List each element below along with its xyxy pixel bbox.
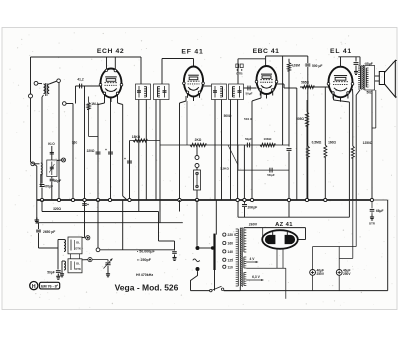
svg-text:320Ω: 320Ω — [53, 207, 61, 211]
svg-text:DTN: DTN — [75, 267, 80, 271]
wire v122.7 below bus — [122, 200, 124, 250]
output transformer T2 core — [361, 65, 363, 90]
svg-text:110: 110 — [228, 265, 233, 269]
wire HV to AZ41 left plate — [262, 228, 264, 240]
wire v-rail x296.8 to bus — [296, 88, 298, 200]
wire v158.5 drop — [158, 212, 160, 242]
svg-text:DTN: DTN — [75, 247, 80, 251]
wire v352.8 below bus — [352, 201, 354, 259]
selector tap 160 — [223, 241, 226, 244]
junction bus x59 — [57, 198, 60, 201]
junction bus x42 — [40, 198, 43, 201]
wire h241 — [159, 240, 175, 242]
tube AZ41 — [262, 230, 298, 249]
svg-text:41,2: 41,2 — [77, 78, 83, 82]
wire speaker secondary return v375.8 — [375, 90, 377, 128]
trimmer KLO feed — [51, 146, 53, 160]
wire h222.7 return — [36, 218, 38, 223]
svg-text:1,5KΩ: 1,5KΩ — [220, 167, 229, 171]
junction bus x98 — [96, 198, 99, 201]
wire v-rail x187 pin drop — [193, 98, 195, 102]
wire bus x197 down to plug — [196, 200, 198, 246]
capacitor 41,2 series — [79, 84, 81, 89]
wire pot bottom to bus — [196, 190, 198, 200]
svg-text:OL: OL — [76, 241, 80, 245]
svg-text:2650 pF: 2650 pF — [43, 230, 55, 234]
wire B+ x285.8 down — [285, 268, 287, 299]
node oscillator terminal 2 — [88, 258, 92, 262]
wire EF41 anode to MF2 — [203, 85, 212, 87]
ground bus — [37, 199, 372, 201]
badge logo disc — [30, 282, 38, 290]
wire bottom rail h290.6 — [224, 290, 388, 292]
wire anode supply h56 to EL41 area — [266, 55, 308, 57]
MF2 box A capacitor — [214, 86, 216, 98]
wire v265.6 tube top — [265, 56, 267, 59]
svg-text:250V: 250V — [317, 272, 325, 276]
junction bus x73 — [71, 198, 74, 201]
wire left antenna rail vertical — [30, 57, 32, 162]
svg-text:250V: 250V — [343, 272, 351, 276]
wire diode return h88 — [244, 87, 257, 89]
wire selector bar bottom down — [214, 270, 216, 291]
junction bus x325.3 — [324, 198, 327, 201]
svg-text:1250Ω: 1250Ω — [363, 141, 373, 145]
wire top-left horizontal from antenna rail to MF1 — [31, 56, 142, 58]
wire v-rail x110 tube to bus — [110, 98, 112, 200]
OL1 coil — [64, 240, 66, 252]
volume potentiometer node top — [195, 156, 199, 160]
wire MF2 box B bottom leads — [230, 100, 232, 201]
wire x36.8 down to ground — [31, 162, 37, 166]
power transformer T3 primary winding — [237, 229, 239, 286]
wire pot feed — [196, 145, 198, 156]
junction dot on selector bar — [211, 246, 214, 249]
svg-text:3βc: 3βc — [72, 141, 78, 145]
wire rect h217.2 — [238, 216, 349, 218]
wire v-rail x244.4 — [243, 145, 245, 200]
MF1 box A winding — [146, 87, 148, 98]
output transformer T2 primary — [360, 66, 362, 89]
wire OL2 left lead to ground — [62, 260, 64, 262]
wire v160 link — [159, 200, 161, 212]
wire v216.3 below bus — [215, 200, 217, 235]
junction bus x244.4 — [243, 198, 246, 201]
capacitor shunt below bus x84.5 — [84, 201, 86, 203]
wire v-rail x179.5 to bus — [179, 103, 181, 200]
wire v-rail x307.8 with 500pF — [307, 56, 309, 63]
capacitor 500pF — [305, 63, 310, 65]
capacitor 4,7KpF on x289 — [287, 148, 292, 150]
wire h128 secondary return — [372, 127, 376, 129]
svg-text:DTR: DTR — [369, 222, 375, 226]
capacitor on x174.5 — [172, 251, 177, 253]
svg-text:50Ω: 50Ω — [366, 91, 373, 95]
resistor 565 ohm — [302, 85, 314, 88]
oscillator padding coil L2 — [41, 163, 43, 175]
wire terminal2 to gang h259.6 — [92, 259, 108, 261]
svg-text:EBC 41: EBC 41 — [253, 48, 280, 55]
svg-text:ECH 42: ECH 42 — [97, 48, 124, 55]
node coil secondary top — [57, 79, 61, 83]
svg-text:DTB: DTB — [236, 72, 243, 76]
trimmer box — [47, 160, 57, 177]
svg-text:504 A: 504 A — [244, 117, 253, 121]
MF2 box B capacitor — [239, 86, 241, 98]
coil L1 primary — [44, 84, 46, 94]
wire MF1 box A bottom leads — [138, 100, 140, 212]
MF2 box B winding — [232, 87, 234, 98]
capacitor electrolytic 46uF B — [338, 247, 340, 270]
wire h250 gang line — [100, 249, 175, 251]
svg-text:68μF: 68μF — [376, 209, 383, 213]
junction bus x252 — [250, 198, 253, 201]
wire tube right pin to x122.7 — [117, 98, 119, 104]
junction bus x197 — [195, 198, 198, 201]
svg-text:EF 41: EF 41 — [181, 48, 203, 55]
ground x174.5 — [174, 255, 176, 257]
svg-text:AZ 41: AZ 41 — [275, 222, 293, 228]
svg-text:+: + — [124, 157, 126, 161]
wire v174.5 cap — [174, 241, 176, 251]
ground tuning gang — [107, 271, 109, 274]
wire EF41 left pin to x179.5 — [185, 96, 187, 101]
wire MF2 box A bottom leads — [214, 100, 216, 201]
wire EL41 grid top — [340, 57, 342, 67]
wire filament h268.2 — [246, 267, 285, 269]
wire 4V filament — [246, 261, 256, 263]
wire y103.5 link — [66, 103, 73, 105]
wire plug upper to selector — [200, 247, 214, 249]
svg-text:H: H — [32, 284, 36, 290]
node trimmer right terminal — [62, 158, 66, 162]
tube EF41 — [183, 67, 205, 102]
OL1 inner marks — [70, 240, 72, 251]
svg-text:▪ 50.000μF: ▪ 50.000μF — [137, 250, 155, 254]
svg-text:160Ω: 160Ω — [328, 141, 336, 145]
svg-text:2KΩ: 2KΩ — [195, 138, 202, 142]
selector tap 125 — [223, 258, 226, 261]
ground below left rail — [36, 218, 38, 221]
wire grid resistor feed h87 — [300, 86, 329, 88]
svg-text:▪▪ 250pF: ▪▪ 250pF — [137, 258, 152, 262]
wire h258.4 — [339, 257, 353, 259]
wire h246.5 cap feed — [313, 246, 357, 248]
wire HV top 260V — [243, 228, 245, 230]
oscillator coil box OL1 — [68, 237, 82, 254]
wire rect below bus left x289 — [288, 201, 290, 217]
svg-text:10KΩ: 10KΩ — [264, 137, 273, 141]
capacitor electrolytic on x110 — [108, 151, 113, 153]
wire y86 to mixer grid — [76, 85, 101, 87]
OL2 coil — [64, 261, 66, 270]
oscillator coil box OL2 — [68, 259, 82, 273]
svg-text:500 μF: 500 μF — [312, 64, 322, 68]
svg-text:260V: 260V — [249, 223, 258, 227]
antenna terminal — [29, 94, 33, 98]
wire v282.6 screen feed — [282, 56, 284, 145]
wire transformer primary bottom to x356.2 — [356, 90, 360, 95]
svg-text:0,5ΜΩ: 0,5ΜΩ — [312, 141, 322, 145]
svg-text:125: 125 — [228, 258, 234, 262]
svg-text:KI.O: KI.O — [48, 142, 55, 146]
output transformer T2 top lead — [359, 57, 361, 66]
capacitor electrolytic on x98 — [96, 151, 101, 153]
MF1 box A capacitor — [138, 86, 140, 98]
wire v-rail x42 coil bottom to bus — [42, 95, 44, 97]
svg-text:220 V: 220 V — [228, 233, 237, 237]
wire MF1 primary drop — [140, 57, 142, 84]
junction bus x84.5 — [83, 198, 86, 201]
speaker cone — [385, 61, 396, 98]
wire v-rail x73 to bus — [72, 104, 74, 201]
resistor 10K — [260, 143, 275, 146]
ground DTS under cap — [355, 69, 357, 72]
power transformer 4V winding — [243, 257, 245, 268]
svg-text:4,03Μ: 4,03Μ — [291, 64, 300, 68]
IF transformer MF2 box A — [212, 84, 227, 100]
power transformer 6.3V winding — [243, 273, 245, 286]
wire tube pin to x98 rail — [104, 98, 106, 104]
wire heater h211.5 — [41, 200, 43, 212]
node gang feed — [96, 248, 100, 252]
svg-text:EM 76 - 8°: EM 76 - 8° — [41, 284, 59, 288]
svg-text:50μF: 50μF — [245, 92, 252, 96]
badge model box EM 76-8 — [40, 282, 60, 289]
svg-text:Vega - Mod. 526: Vega - Mod. 526 — [115, 282, 179, 292]
wire coil secondary top to node — [49, 81, 57, 84]
capacitor trimmer KLO — [50, 151, 54, 153]
wire OL2 to terminal — [82, 259, 88, 261]
wire v-rail x75.5 drop — [75, 86, 77, 104]
MF1 box B winding — [157, 87, 159, 98]
junction bus x129.5 — [128, 198, 131, 201]
tube ECH42 — [99, 69, 123, 103]
resistor 4,03M on x289 — [288, 59, 290, 63]
wire right edge v387.7 — [387, 200, 389, 291]
tube EL41 — [327, 67, 354, 102]
wire AZ41 filament pins — [276, 249, 278, 269]
tuning gang arrow — [104, 259, 113, 269]
wire v-rail x372 transformer return to bus — [371, 91, 373, 201]
wire v238 below bus — [237, 201, 239, 217]
coil L1 core — [45, 83, 47, 96]
wire diagonal AVC — [228, 145, 238, 165]
terminal aerial coil top — [34, 81, 38, 85]
wire v98 below bus to gang — [97, 200, 99, 248]
wire MF1 box B bottom leads — [155, 100, 157, 201]
svg-text:50pF: 50pF — [54, 179, 61, 183]
junction bus x179.5 — [178, 198, 181, 201]
svg-text:5KpF: 5KpF — [267, 173, 275, 177]
power transformer HV secondary — [243, 230, 245, 252]
wire MF2 secondary top to EBC41 grid — [237, 59, 239, 84]
svg-text:220Ω: 220Ω — [87, 149, 95, 153]
resistor 1M grid leak — [88, 97, 90, 103]
junction bus x307 — [305, 198, 308, 201]
svg-text:50pF: 50pF — [47, 271, 54, 275]
mains plug terminal lower — [196, 267, 200, 271]
svg-text:505Ω: 505Ω — [296, 117, 304, 121]
OL2 inner marks — [70, 261, 72, 270]
svg-text:50pF: 50pF — [245, 137, 252, 141]
wire ECH42 top pin right — [114, 57, 116, 70]
capacitor 50pF series h145 — [246, 143, 248, 148]
MF2 box A winding — [222, 87, 224, 98]
mains plug terminal upper — [196, 246, 200, 250]
voltage selector bar — [213, 234, 215, 270]
wire osc grid x84.5 bus to box top — [84, 201, 86, 237]
svg-text:18KΩ: 18KΩ — [132, 135, 141, 139]
wire terminal to osc coil — [35, 163, 40, 165]
svg-text:140: 140 — [228, 250, 234, 254]
wire EBC41 pins down — [260, 93, 262, 98]
wire box1 to box2 links — [70, 254, 72, 259]
output transformer T2 secondary box — [365, 66, 375, 91]
wire terminal to coil — [38, 82, 42, 84]
resistor 2K — [190, 143, 206, 146]
coil L1 secondary — [48, 84, 50, 94]
wire ECH42 top pin left — [106, 57, 108, 70]
capacitor 50pF osc — [57, 264, 59, 270]
wire transformer bottom to rail — [239, 287, 241, 291]
ground under 50pF — [57, 274, 59, 276]
svg-text:+: + — [105, 148, 107, 152]
capacitor 5000pF top — [355, 57, 357, 62]
wire OL1 to terminal — [82, 236, 86, 238]
tube EBC41 — [255, 66, 278, 99]
wire OL1 left top lead — [58, 239, 64, 241]
label mains tilde — [193, 259, 200, 262]
IF transformer MF1 box A — [136, 84, 151, 100]
svg-text:OL: OL — [76, 262, 80, 266]
node left mid terminal — [31, 162, 35, 166]
node h-link y103.5 — [63, 102, 67, 106]
power transformer T3 core — [239, 228, 241, 288]
volume potentiometer P1 — [194, 170, 201, 190]
wire h145 AVC line — [160, 144, 289, 146]
junction bus end x371.9 — [370, 198, 373, 201]
capacitor 5KpF — [269, 168, 271, 173]
capacitor 50pF coupling — [247, 86, 249, 91]
wire v356.2 below bus to h246.5 — [355, 201, 357, 247]
trimmer symbol inside box — [51, 162, 53, 176]
capacitor 2650pF — [38, 223, 40, 229]
wire HV to AZ41 right plate — [305, 228, 307, 240]
wire jog h136.5 — [89, 136, 98, 138]
wire rect right x349.4 — [348, 201, 350, 217]
wire v-rail x129.5 — [129, 141, 131, 201]
selector tap 110 — [223, 265, 226, 268]
selector tap 140 — [223, 250, 226, 253]
MF1 box B capacitor — [164, 86, 166, 98]
speaker driver — [379, 72, 384, 85]
component DTB twin caps — [236, 64, 239, 68]
junction bus x110 — [108, 198, 111, 201]
capacitor 68uF below bus right — [371, 201, 373, 208]
wire h248 to 50pF net — [39, 247, 59, 249]
svg-text:565Ω: 565Ω — [301, 81, 309, 85]
wire top h56.8 to output transformer — [339, 56, 361, 58]
wire v-rail x84.5 to bus — [84, 86, 86, 200]
svg-text:6,3 V: 6,3 V — [252, 275, 260, 279]
wire EL41 pins to rail cluster — [333, 96, 335, 100]
IF transformer MF1 box B — [154, 84, 170, 100]
resistor 505 ohm on x307 — [305, 112, 308, 126]
capacitor 50pF below trimmer box — [51, 177, 53, 179]
wire EL41 cathode rail x352.8 — [352, 89, 354, 95]
capacitor electrolytic 46uF A — [312, 247, 314, 270]
ground OL2 — [61, 271, 63, 274]
tuning gang variable capacitor — [107, 260, 109, 262]
wire v-rail x59 coil to bus — [58, 83, 60, 201]
svg-text:EL 41: EL 41 — [330, 48, 352, 55]
wire secondary to speaker — [375, 75, 380, 77]
wire v238 link — [237, 145, 239, 170]
resistor 18K — [133, 139, 147, 142]
capacitor 20KpF below bus — [244, 201, 246, 204]
wire 6,3V filament — [246, 279, 262, 281]
selector tap 220V — [223, 233, 226, 236]
junction bus x237.6 — [236, 198, 239, 201]
wire h170 diode line — [238, 169, 289, 171]
wire x179.5 below bus — [179, 200, 181, 212]
capacitor electrolytic on x129.5 — [127, 160, 132, 162]
wire h140.5 18K resistor link — [130, 140, 161, 142]
wire MF1 secondary top to EF41 grid — [161, 59, 163, 85]
ground DTR — [371, 215, 373, 218]
bus thin extension right — [372, 199, 388, 201]
node oscillator terminal 1 — [86, 236, 90, 240]
svg-text:20KpF: 20KpF — [248, 206, 258, 210]
wire v-rail x98 to bus — [97, 105, 99, 201]
wire EBC41 anode right — [277, 83, 285, 85]
wire box to terminal — [57, 159, 62, 162]
wire plug lower down — [191, 271, 198, 291]
junction bus x289 — [287, 198, 290, 201]
svg-text:Hf 470kHz: Hf 470kHz — [136, 273, 153, 277]
svg-text:4 V: 4 V — [250, 257, 256, 261]
output transformer T2 secondary winding — [365, 68, 367, 87]
wire v307 upper — [306, 100, 308, 112]
svg-text:160: 160 — [228, 242, 234, 246]
wire v-rail x122.7 — [122, 105, 124, 197]
wire v-rail x325.3 to bus — [324, 87, 326, 145]
switch on mains — [191, 290, 210, 292]
IF transformer MF2 box B — [229, 84, 244, 100]
volume potentiometer node mid — [195, 164, 199, 168]
capacitor series 470pF on x42 — [40, 184, 45, 186]
